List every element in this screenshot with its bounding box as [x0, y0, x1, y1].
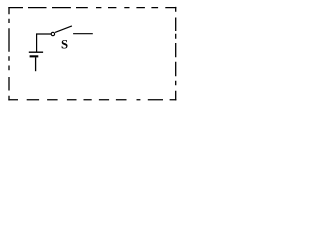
dashed border bottom edge: [8, 99, 176, 101]
wire from switch fixed contact to the right: [73, 33, 93, 35]
switch S open blade arm: [55, 26, 72, 33]
dashed border top edge: [8, 7, 176, 9]
battery negative lead wire: [35, 57, 37, 71]
battery short plate (negative terminal): [30, 55, 39, 57]
wire from battery positive terminal up and right to switch: [37, 34, 52, 52]
svg-text:S: S: [61, 37, 68, 51]
dashed border right edge: [175, 7, 177, 101]
switch S pivot contact circle: [51, 32, 54, 35]
dashed border left edge: [8, 7, 10, 100]
battery long plate (positive terminal): [29, 51, 43, 53]
